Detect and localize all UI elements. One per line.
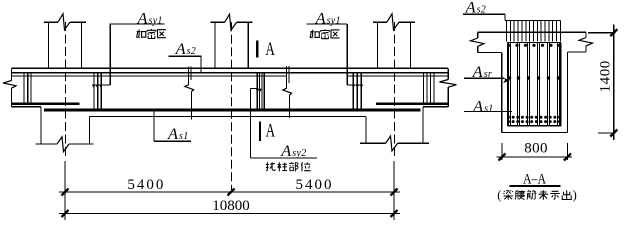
- right support left edge: [365, 117, 367, 144]
- beam section right edge: [566, 52, 568, 133]
- A_s1 label leader: [464, 111, 512, 113]
- svg-text:s2: s2: [477, 5, 487, 16]
- column C3 cap right part: [399, 21, 415, 23]
- column C1 right edge: [81, 22, 83, 68]
- left support break line left part: [36, 143, 57, 145]
- 托柱部位: [266, 162, 275, 170]
- dim line 10800: [59, 213, 400, 215]
- slab right cut vertical upper: [585, 32, 587, 37]
- waist bar dots A_sr: [508, 76, 511, 79]
- 加密区 left: [137, 30, 146, 38]
- A_s2 comb hanger line: [505, 19, 561, 21]
- leader A_sy1 right arrow shaft: [347, 84, 363, 86]
- svg-text:): ): [573, 188, 577, 202]
- svg-text:A: A: [472, 98, 483, 115]
- right support break line left part: [360, 142, 386, 144]
- beam top edge L1: [12, 67, 449, 69]
- svg-text:s2: s2: [187, 46, 197, 57]
- A_s2 section label underline: [463, 13, 505, 15]
- bottom bar thick left anchorage: [12, 102, 80, 105]
- dim 800 tick left: [499, 154, 506, 161]
- column C2 right edge: [247, 22, 249, 68]
- cutoff K1 zigzag: [185, 85, 194, 92]
- svg-text:A–A: A–A: [523, 171, 546, 187]
- column C2 cap break zigzag: [225, 14, 237, 30]
- A-A title underline: [509, 185, 560, 187]
- leader A_s2 underline: [168, 55, 201, 57]
- svg-text:A: A: [472, 64, 483, 81]
- stirrup group S1: [24, 73, 31, 104]
- bottom bar dots row 2: [507, 120, 510, 123]
- arrowheads A_sy1 right onto stirrups: [352, 85, 364, 89]
- dim 1400 tick top: [610, 29, 617, 36]
- dim 800 tick right: [564, 154, 571, 161]
- support top bar L3 left segment: [12, 75, 288, 77]
- left support left edge: [40, 107, 42, 144]
- dim tick left @10800: [62, 210, 69, 217]
- dim tick middle @5400: [228, 189, 235, 196]
- bar cutoff K2 vertical upper (double): [286, 66, 288, 88]
- column C3 left edge: [377, 22, 379, 68]
- leader A_s1 underline: [154, 140, 191, 142]
- beam section left edge: [501, 52, 503, 132]
- column C3 cap left part: [373, 21, 387, 23]
- A_s2 comb ticks: [507, 20, 561, 41]
- cutoff K2 zigzag: [283, 88, 292, 95]
- slab left break zigzag: [471, 38, 485, 46]
- left support break line right part: [69, 143, 94, 145]
- svg-text:1400: 1400: [598, 60, 614, 92]
- left support right edge: [89, 117, 91, 145]
- arrowheads A_sy1 left onto stirrups: [92, 85, 103, 89]
- column C1 cap break zigzag: [58, 14, 70, 30]
- svg-text:s1: s1: [484, 103, 494, 114]
- top rebar line L2: [12, 72, 449, 74]
- svg-text:A: A: [175, 41, 186, 58]
- slab left cut vertical lower: [477, 46, 479, 52]
- beam left end vertical (upper part): [11, 68, 13, 80]
- column C1 left edge: [48, 22, 50, 68]
- beam left end break zigzag: [3, 81, 16, 89]
- svg-text:sr: sr: [484, 69, 492, 80]
- slab right break zigzag: [579, 38, 593, 46]
- svg-text:A: A: [465, 0, 476, 17]
- section cut line A top: [256, 41, 258, 58]
- column C1 cap right part: [70, 21, 86, 23]
- leader A_s1 vertical: [153, 110, 155, 141]
- svg-text:A: A: [280, 143, 291, 160]
- svg-text:A: A: [315, 10, 326, 27]
- slab bottom left: [478, 51, 502, 53]
- beam bottom edge main span: [90, 116, 367, 118]
- column C3 cap break zigzag: [387, 14, 399, 30]
- stirrup group S2: [94, 73, 101, 111]
- right support right edge: [422, 107, 424, 143]
- bar cutoff K1 vertical upper (double): [188, 67, 190, 85]
- dim tick right @10800: [391, 210, 398, 217]
- section cut line A bottom: [259, 122, 261, 142]
- right support break zigzag: [386, 136, 398, 151]
- beam right end vertical (lower part): [447, 87, 449, 107]
- bottom bar dots row 1: [507, 116, 510, 119]
- stirrup box left: [507, 43, 509, 126]
- 加密区 right: [310, 30, 319, 38]
- top bar dots: [507, 44, 510, 47]
- stirrup group S3: [257, 74, 264, 111]
- svg-text:A: A: [266, 122, 276, 142]
- A_sr leader arrowhead: [502, 77, 510, 83]
- dim 1400 tick bottom: [610, 130, 617, 137]
- arrowheads A_sy2 onto stirrups: [256, 89, 262, 92]
- beam section bottom edge: [502, 132, 568, 134]
- extension line left: [64, 161, 66, 220]
- column C1 centerline: [65, 22, 67, 158]
- column C2 cap left part: [211, 21, 225, 23]
- right support break line right part: [398, 142, 430, 144]
- column C2 left edge: [214, 22, 216, 68]
- beam bottom edge right overhang: [423, 106, 448, 108]
- beam bottom edge left overhang: [12, 106, 42, 108]
- stirrup group S4: [353, 73, 361, 111]
- svg-text:A: A: [136, 10, 147, 27]
- stirrup box right: [560, 43, 562, 126]
- svg-text:A: A: [167, 126, 178, 143]
- stirrup verticals (double lines): [509, 43, 560, 126]
- beam right end break zigzag: [440, 80, 457, 88]
- svg-text:800: 800: [524, 140, 548, 156]
- leader A_sy1 right underline: [307, 23, 348, 25]
- dim line 5400/5400: [59, 191, 400, 193]
- dim 800 ext right: [566, 143, 568, 160]
- section rebar dots: [507, 44, 561, 123]
- main bottom bar A_s1 thick: [44, 109, 421, 112]
- stirrup box top: [508, 42, 561, 44]
- slab right cut vertical lower: [585, 46, 587, 52]
- extension line right: [393, 161, 395, 220]
- column C2 centerline: [231, 22, 233, 190]
- leader A_sy1 right vertical: [346, 24, 348, 85]
- beam left end vertical (lower part): [11, 88, 13, 107]
- leader A_sy2 vertical: [249, 89, 251, 158]
- left support break zigzag: [57, 137, 69, 152]
- leader A_sy1 left vertical: [109, 24, 111, 85]
- svg-text:s1: s1: [179, 131, 189, 142]
- A_sr label leader: [464, 77, 504, 79]
- slab left cut vertical upper: [477, 32, 479, 38]
- column C2 cap right part: [237, 21, 253, 23]
- column C3 right edge: [410, 22, 412, 68]
- bar cutoff K1 vertical lower: [191, 92, 193, 120]
- svg-text:A: A: [265, 40, 275, 60]
- dim 800 line: [497, 156, 572, 158]
- beam right end vertical (upper part): [447, 68, 449, 79]
- svg-text:5400: 5400: [296, 177, 334, 193]
- leader A_sy2 arrow shaft: [250, 88, 258, 90]
- dim 1400 ext bottom: [598, 132, 616, 134]
- dim 1400 ext top: [588, 32, 616, 34]
- bar cutoff K2 vertical lower: [289, 95, 291, 118]
- leader A_sy1 left arrow shaft: [94, 84, 111, 86]
- leader A_sy1 left underline: [110, 23, 165, 25]
- slab top line: [478, 31, 586, 33]
- bottom bar thick right anchorage: [376, 102, 448, 105]
- leader A_sy2 underline: [250, 157, 317, 159]
- dim tick left @5400: [62, 189, 69, 196]
- support top bar L3 right segment: [347, 75, 448, 77]
- stirrup box bottom: [508, 125, 561, 127]
- A_s2 section label step: [504, 14, 506, 20]
- svg-text:5400: 5400: [127, 177, 165, 193]
- svg-text:sy1: sy1: [327, 15, 341, 26]
- leader A_s2 vertical: [200, 56, 202, 72]
- dim 1400 line: [613, 25, 615, 141]
- slab bottom right: [567, 51, 586, 53]
- dim tick right @5400: [391, 189, 398, 196]
- svg-text:10800: 10800: [212, 198, 250, 214]
- stirrup group S5: [424, 73, 435, 104]
- column C1 cap left part: [44, 21, 58, 23]
- svg-text:(: (: [497, 188, 501, 202]
- column C3 centerline: [394, 22, 396, 158]
- dim 800 ext left: [501, 143, 503, 160]
- svg-text:sy1: sy1: [149, 15, 163, 26]
- svg-text:sy2: sy2: [292, 148, 306, 159]
